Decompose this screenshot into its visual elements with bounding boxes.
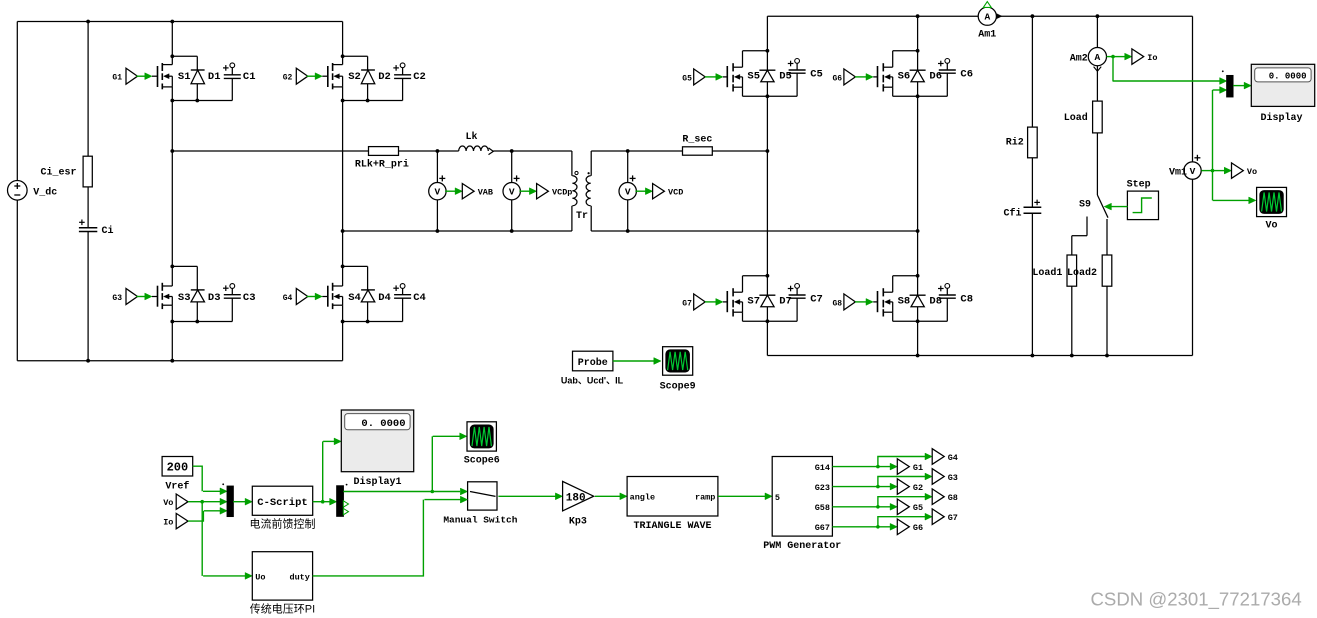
wire Probe to Scope9 (green)	[613, 358, 661, 365]
svg-text:Load: Load	[1064, 112, 1088, 124]
wire Load1 to bottom rail	[1070, 286, 1074, 357]
svg-text:G8: G8	[832, 299, 842, 308]
resistor Load1	[1032, 255, 1076, 286]
wire PI duty to Manual Switch (green)	[313, 496, 468, 576]
diode D3	[172, 266, 220, 321]
svg-text:G3: G3	[948, 473, 958, 483]
gate input G8	[832, 294, 873, 310]
node dots S7 cell	[766, 274, 770, 323]
subsystem PWM Generator	[763, 457, 841, 553]
svg-text:V: V	[1190, 166, 1196, 177]
svg-text:0. 0000: 0. 0000	[1269, 71, 1307, 81]
svg-text:G3: G3	[112, 294, 122, 303]
gate input G3	[112, 289, 152, 305]
svg-text:V: V	[625, 187, 631, 198]
inductor Lk	[459, 131, 494, 154]
goto tag VCD	[635, 184, 683, 199]
svg-text:Vo: Vo	[163, 498, 173, 508]
watermark	[1091, 589, 1302, 611]
svg-text:G6: G6	[913, 523, 923, 533]
svg-text:C1: C1	[243, 71, 256, 83]
goto tag G6	[897, 519, 923, 535]
svg-text:G6: G6	[832, 74, 842, 83]
svg-text:ramp: ramp	[695, 493, 715, 503]
svg-text:C6: C6	[960, 69, 973, 81]
display Display1	[341, 410, 413, 488]
svg-text:CSDN @2301_77217364: CSDN @2301_77217364	[1091, 589, 1302, 611]
wire PWM output G58 (green)	[832, 493, 932, 510]
svg-text:D6: D6	[929, 70, 942, 82]
svg-text:Uab、Ucd'、IL: Uab、Ucd'、IL	[561, 375, 624, 385]
svg-text:D4: D4	[378, 292, 391, 304]
wire primary top rail (DC+ bus)	[17, 21, 342, 23]
capacitor C3	[172, 284, 255, 322]
manual switch Manual Switch	[443, 482, 517, 526]
capacitor C2	[343, 63, 426, 101]
capacitor C6	[918, 59, 973, 97]
wire right bus	[1192, 16, 1194, 355]
svg-text:C3: C3	[243, 292, 256, 304]
svg-text:TRIANGLE WAVE: TRIANGLE WAVE	[633, 521, 711, 532]
svg-text:Vo: Vo	[1265, 221, 1277, 232]
svg-text:V: V	[435, 187, 441, 198]
svg-text:angle: angle	[630, 493, 656, 503]
diode D1	[172, 56, 220, 100]
constant Vref (200)	[162, 457, 193, 493]
wire Ri2-Cfi branch	[1031, 14, 1035, 357]
wire C-Script output (green)	[313, 500, 325, 504]
transistor S7 (MOSFET)	[723, 276, 767, 322]
wire PWM output G67 (green)	[832, 513, 932, 530]
svg-text:S8: S8	[898, 295, 911, 307]
svg-text:G1: G1	[112, 74, 122, 83]
scope Scope9	[660, 347, 696, 393]
svg-text:S1: S1	[178, 71, 191, 83]
wire bridge leg 1	[171, 22, 173, 361]
voltmeter Vm1	[1169, 155, 1201, 180]
wire PWM output G14 (green)	[832, 453, 932, 470]
svg-text:D5: D5	[779, 70, 792, 82]
wire to scope Vo (green)	[1213, 197, 1256, 204]
transistor S5 (MOSFET)	[723, 51, 767, 97]
wire primary bottom rail (DC- bus)	[17, 360, 342, 362]
wire Manual Switch to Kp3 (green)	[498, 493, 562, 500]
transistor S6 (MOSFET)	[873, 51, 917, 97]
svg-text:G2: G2	[283, 74, 293, 83]
svg-text:V: V	[509, 187, 515, 198]
gate input G5	[682, 69, 723, 85]
svg-text:VCD: VCD	[668, 187, 683, 197]
gate input G4	[283, 289, 323, 305]
gain Kp3 (180)	[563, 481, 594, 527]
from tag Io	[163, 513, 188, 528]
goto tag G3	[932, 469, 958, 485]
capacitor Cfi	[1003, 200, 1041, 220]
svg-text:G23: G23	[815, 483, 830, 493]
goto tag G5	[897, 499, 923, 515]
svg-text:G58: G58	[815, 503, 830, 513]
subsystem C-Script	[252, 486, 312, 515]
svg-text:Tr: Tr	[576, 211, 588, 222]
voltmeter VAB	[429, 151, 446, 231]
diode D2	[343, 56, 391, 100]
svg-text:G14: G14	[815, 463, 830, 473]
svg-text:C4: C4	[413, 292, 426, 304]
ammeter Am1	[978, 2, 1002, 41]
subsystem PI (chuantong dianyahuan PI)	[250, 552, 315, 616]
svg-text:Vo: Vo	[1247, 167, 1257, 177]
wire RLk to Lk	[399, 149, 459, 153]
wire mux to C-Script (green)	[233, 498, 252, 505]
wire Load to switch	[1096, 133, 1098, 195]
wire mux to Display (green)	[1233, 82, 1251, 89]
wire R_sec to leg3	[712, 149, 769, 153]
svg-text:VAB: VAB	[478, 187, 493, 197]
transistor S8 (MOSFET)	[873, 276, 917, 322]
diode D7	[759, 276, 791, 322]
capacitor C4	[343, 284, 426, 322]
svg-text:Ci: Ci	[102, 225, 114, 237]
capacitor Ci	[79, 220, 114, 237]
goto tag G2	[897, 479, 923, 495]
node dot Ci branch top	[86, 20, 90, 24]
svg-text:180: 180	[566, 493, 586, 505]
svg-text:D3: D3	[208, 292, 221, 304]
wire PWM output G23 (green)	[832, 473, 932, 490]
voltage source V_dc	[7, 181, 57, 201]
svg-text:传统电压环PI: 传统电压环PI	[250, 602, 315, 615]
svg-text:Step: Step	[1127, 180, 1151, 191]
svg-text:Am2: Am2	[1070, 53, 1088, 64]
node dots S5 cell	[766, 49, 770, 98]
gate input G1	[112, 68, 152, 84]
svg-text:G67: G67	[815, 523, 830, 533]
wire demux to Manual Switch (green)	[343, 488, 467, 495]
svg-text:S2: S2	[348, 71, 361, 83]
wire node A (leg1 midpoint to RLk)	[170, 149, 368, 153]
wire Vref to mux (green)	[193, 466, 228, 495]
wire Kp3 to TRIANGLE WAVE (green)	[595, 493, 627, 500]
wire C-Script to demux (green)	[323, 498, 337, 505]
node dots S6 cell	[916, 49, 920, 98]
svg-text:S6: S6	[898, 70, 911, 82]
capacitor C5	[767, 59, 822, 97]
resistor Ri2	[1006, 127, 1037, 158]
svg-text:Scope6: Scope6	[464, 455, 500, 466]
wire Vo to PI block (green)	[202, 502, 252, 580]
transformer Tr primary winding	[572, 151, 578, 231]
svg-text:Vm1: Vm1	[1169, 168, 1187, 179]
capacitor C1	[172, 63, 255, 101]
wire Vm1 output (green)	[1201, 90, 1214, 200]
svg-text:C2: C2	[413, 71, 426, 83]
svg-text:Scope9: Scope9	[660, 381, 696, 392]
svg-text:Manual Switch: Manual Switch	[443, 515, 517, 526]
svg-text:G4: G4	[948, 453, 958, 463]
voltmeter VCDp	[503, 151, 520, 231]
svg-text:S9: S9	[1079, 200, 1091, 211]
scope Vo	[1257, 187, 1287, 231]
node dot leg1 top rail	[170, 20, 174, 24]
capacitor C8	[918, 284, 973, 322]
gate input G2	[283, 68, 323, 84]
demux (bus splitter)	[337, 484, 349, 517]
gate input G6	[832, 69, 873, 85]
svg-text:Vref: Vref	[165, 481, 189, 493]
wire Ci branch	[87, 22, 89, 361]
switch S9	[1072, 195, 1108, 255]
svg-text:Ci_esr: Ci_esr	[40, 166, 76, 178]
voltmeter VCD	[619, 149, 636, 233]
resistor Load2	[1067, 255, 1112, 286]
goto tag G8	[932, 489, 958, 505]
wire bridge leg 3	[766, 16, 768, 355]
svg-text:PWM Generator: PWM Generator	[763, 541, 841, 552]
wire Am2 to mux (green)	[1113, 57, 1227, 85]
diode D8	[910, 276, 942, 322]
svg-text:S7: S7	[747, 295, 760, 307]
diode D6	[910, 51, 942, 97]
svg-text:D2: D2	[378, 71, 391, 83]
svg-text:200: 200	[167, 461, 189, 475]
wire Vm1 to mux (green)	[1213, 87, 1227, 94]
goto tag G4	[932, 449, 958, 465]
ammeter Am2	[1070, 48, 1107, 72]
wire to Scope6 (green)	[432, 433, 467, 492]
scope Scope6	[464, 422, 500, 467]
svg-text:Io: Io	[163, 517, 173, 527]
node dots S1 cell	[170, 54, 199, 102]
label Tr	[576, 211, 588, 222]
node dot leg1 bottom rail	[170, 359, 174, 363]
node dots S4 cell	[341, 265, 370, 324]
transistor S2 (MOSFET)	[322, 56, 361, 100]
wire bridge leg 4	[916, 14, 920, 357]
wire V_dc left branch	[16, 22, 18, 361]
resistor Load	[1064, 101, 1102, 133]
svg-text:Load1: Load1	[1032, 267, 1062, 279]
label dianliu qiankui kongzhi	[250, 516, 316, 530]
svg-text:C-Script: C-Script	[257, 497, 307, 509]
diode D4	[343, 266, 391, 321]
svg-text:Am1: Am1	[978, 29, 996, 40]
svg-text:G1: G1	[913, 463, 923, 473]
svg-text:G4: G4	[283, 294, 293, 303]
transformer Tr secondary winding	[586, 151, 591, 231]
svg-text:电流前馈控制: 电流前馈控制	[250, 516, 316, 530]
svg-text:Display1: Display1	[353, 476, 401, 488]
svg-text:D7: D7	[779, 295, 792, 307]
svg-text:G5: G5	[682, 74, 692, 83]
svg-text:Io: Io	[1147, 53, 1157, 63]
svg-text:D1: D1	[208, 71, 221, 83]
wire Step to S9 (green)	[1104, 203, 1127, 210]
wire secondary top rail	[767, 15, 1192, 17]
wire node B (leg2 midpoint to transformer)	[341, 229, 572, 233]
step source Step	[1127, 180, 1159, 220]
svg-text:Probe: Probe	[578, 357, 608, 369]
wire secondary node D (transformer to leg4)	[591, 229, 919, 233]
svg-text:Lk: Lk	[465, 131, 477, 143]
transistor S4 (MOSFET)	[322, 266, 361, 321]
diode D5	[759, 51, 791, 97]
svg-text:VCDp: VCDp	[552, 187, 572, 197]
svg-text:S5: S5	[747, 70, 760, 82]
svg-text:V_dc: V_dc	[33, 186, 57, 198]
svg-text:A: A	[1095, 52, 1101, 63]
wire Am2 output (green)	[1107, 53, 1132, 60]
resistor R_sec	[682, 134, 712, 155]
svg-text:S4: S4	[348, 292, 361, 304]
goto tag Vo	[1212, 163, 1257, 178]
wire Am2 to Load	[1096, 66, 1098, 101]
wire Lk to transformer	[493, 149, 572, 153]
subsystem TRIANGLE WAVE	[627, 477, 718, 533]
wire Load branch top	[1096, 14, 1100, 47]
svg-text:D8: D8	[929, 295, 942, 307]
node dot Ci branch bottom	[86, 359, 90, 363]
capacitor C7	[767, 284, 822, 322]
svg-text:Uo: Uo	[255, 572, 265, 582]
svg-text:G7: G7	[682, 299, 692, 308]
resistor Ci_esr	[40, 156, 92, 187]
svg-text:G7: G7	[948, 513, 958, 523]
resistor RLk+R_pri	[355, 147, 409, 171]
from tag Vo	[163, 494, 188, 509]
display Display	[1251, 64, 1314, 124]
svg-text:5: 5	[775, 493, 780, 503]
svg-text:Display: Display	[1260, 112, 1302, 124]
svg-text:C5: C5	[810, 69, 823, 81]
node dots S3 cell	[170, 265, 199, 324]
svg-text:Load2: Load2	[1067, 267, 1097, 279]
svg-text:G2: G2	[913, 483, 923, 493]
mux (bus creator) before C-Script	[222, 483, 233, 516]
svg-text:Cfi: Cfi	[1003, 207, 1021, 219]
svg-text:G5: G5	[913, 503, 923, 513]
wire Load2 to bottom rail	[1105, 286, 1109, 357]
goto tag VCDp	[519, 184, 572, 199]
svg-text:Kp3: Kp3	[569, 516, 587, 527]
svg-text:C7: C7	[810, 294, 823, 306]
label Uab Ucd IL	[561, 375, 624, 385]
node dots S8 cell	[916, 274, 920, 323]
mux (bus creator) for Display	[1222, 70, 1233, 96]
wire Io to mux (green)	[188, 507, 227, 521]
wire secondary bottom rail	[767, 355, 1192, 357]
svg-text:G8: G8	[948, 493, 958, 503]
svg-text:C8: C8	[960, 294, 973, 306]
wire secondary node C (transformer to R_sec to leg3)	[591, 150, 682, 152]
goto tag Io	[1132, 49, 1158, 64]
transistor S1 (MOSFET)	[152, 56, 191, 100]
svg-text:S3: S3	[178, 292, 191, 304]
probe block Probe	[573, 351, 613, 371]
transistor S3 (MOSFET)	[152, 266, 191, 321]
svg-text:duty: duty	[289, 572, 309, 582]
goto tag G7	[932, 509, 958, 525]
wire bridge leg 2	[342, 22, 344, 361]
svg-text:0. 0000: 0. 0000	[361, 418, 405, 430]
svg-text:Ri2: Ri2	[1006, 136, 1024, 148]
wire TRIANGLE WAVE to PWM Generator (green)	[718, 493, 772, 500]
wire Vo to mux (green)	[188, 498, 227, 505]
svg-text:RLk+R_pri: RLk+R_pri	[355, 158, 409, 170]
node dots S2 cell	[341, 54, 370, 102]
gate input G7	[682, 294, 723, 310]
goto tag G1	[897, 459, 923, 475]
goto tag VAB	[445, 184, 493, 199]
wire to Display1 (green)	[323, 438, 342, 502]
svg-text:A: A	[984, 12, 990, 23]
svg-text:R_sec: R_sec	[682, 134, 712, 145]
